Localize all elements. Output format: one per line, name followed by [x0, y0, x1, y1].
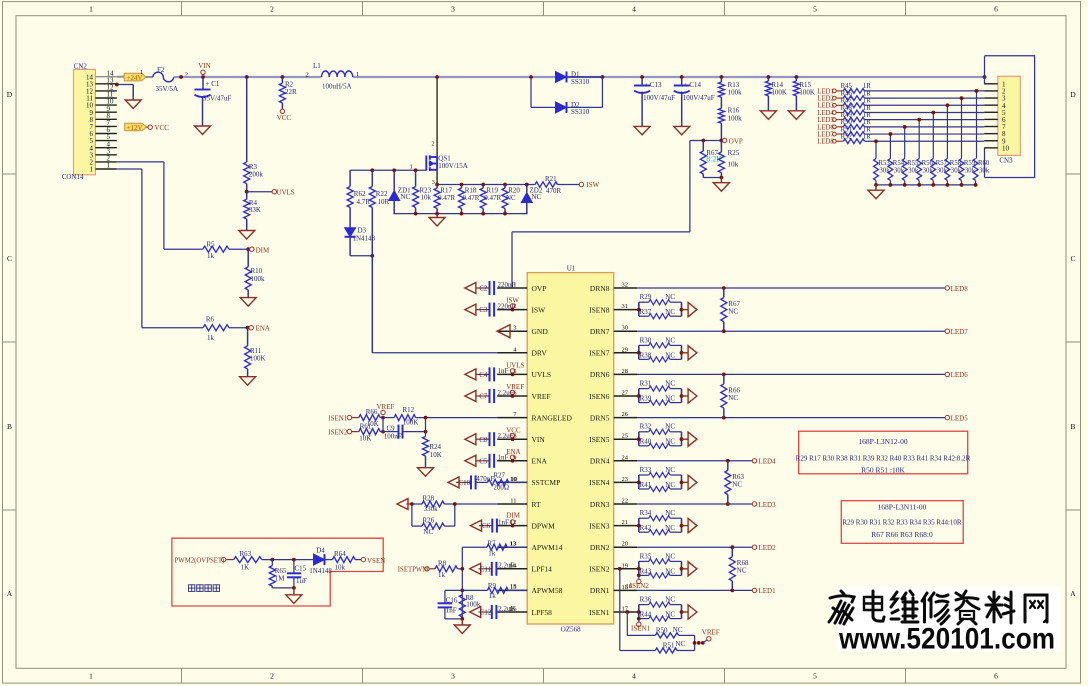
- svg-text:100k: 100k: [728, 89, 743, 97]
- ground: [286, 588, 302, 603]
- svg-text:U1: U1: [567, 265, 576, 273]
- resistor R63 (NC): [725, 459, 745, 506]
- capacitor C16: [438, 590, 463, 619]
- svg-text:35V/5A: 35V/5A: [156, 85, 179, 93]
- diode D4: [309, 547, 332, 575]
- svg-text:LED1: LED1: [759, 587, 777, 595]
- resistor R19: [480, 185, 501, 214]
- svg-text:4: 4: [632, 5, 636, 14]
- ground: [634, 126, 650, 134]
- svg-text:ISEN8: ISEN8: [589, 305, 610, 314]
- svg-text:R40: R40: [640, 438, 652, 446]
- svg-text:2: 2: [270, 5, 274, 14]
- svg-text:C12: C12: [480, 609, 492, 617]
- svg-text:30: 30: [622, 325, 629, 332]
- svg-text:+ C14: + C14: [684, 81, 702, 89]
- wire: [865, 104, 985, 106]
- svg-text:ENA: ENA: [256, 325, 270, 333]
- svg-text:100V/47uF: 100V/47uF: [683, 94, 715, 102]
- wire: [876, 184, 976, 186]
- svg-text:VCC: VCC: [506, 426, 521, 434]
- svg-text:VCC: VCC: [155, 124, 170, 132]
- svg-text:R5: R5: [207, 241, 216, 249]
- resistor R8: [435, 560, 464, 580]
- junction: [701, 139, 705, 143]
- wire: [932, 112, 934, 158]
- svg-text:168P-L3N11-00: 168P-L3N11-00: [878, 503, 927, 512]
- svg-text:OVP: OVP: [729, 138, 743, 146]
- svg-text:100V/47uF: 100V/47uF: [643, 94, 675, 102]
- svg-text:C7: C7: [479, 393, 488, 401]
- svg-text:0.47R: 0.47R: [484, 194, 501, 202]
- svg-text:DRN3: DRN3: [590, 500, 610, 509]
- resistor pair R33/R41: [637, 466, 688, 492]
- svg-text:ISETPWM: ISETPWM: [398, 566, 429, 573]
- ground: [788, 111, 804, 120]
- svg-text:R26: R26: [423, 517, 435, 525]
- wire: [637, 373, 945, 375]
- svg-text:LED8: LED8: [817, 139, 834, 146]
- svg-text:VREF: VREF: [506, 383, 524, 391]
- svg-text:R41: R41: [640, 481, 652, 489]
- svg-text:LED5: LED5: [817, 117, 834, 124]
- svg-text:DRV: DRV: [532, 349, 548, 358]
- svg-text:SS310: SS310: [571, 108, 590, 116]
- wire: [904, 127, 906, 159]
- svg-text:R21: R21: [545, 175, 557, 183]
- capacitor C12: [470, 605, 516, 619]
- wire: [983, 56, 1035, 178]
- resistor R25: [718, 141, 739, 178]
- resistor R24: [423, 432, 442, 468]
- junction: [424, 416, 428, 434]
- capacitor C10: [448, 475, 494, 490]
- svg-text:100K: 100K: [799, 89, 815, 97]
- wire: [865, 126, 985, 128]
- resistor R65: [269, 560, 294, 588]
- node LED4: [817, 110, 843, 117]
- svg-text:LED6: LED6: [817, 124, 834, 131]
- svg-text:PWM2(OVPSET): PWM2(OVPSET): [175, 558, 225, 565]
- node VREF: [693, 629, 720, 645]
- svg-text:100uH/5A: 100uH/5A: [322, 83, 352, 91]
- wire: [865, 140, 985, 142]
- svg-text:27: 27: [622, 390, 629, 397]
- svg-text:R29: R29: [640, 293, 652, 301]
- resistor R23: [413, 170, 432, 213]
- svg-text:100k: 100k: [728, 115, 743, 123]
- svg-text:23: 23: [622, 476, 629, 483]
- svg-text:R14: R14: [771, 81, 783, 89]
- svg-text:ISEN1: ISEN1: [328, 414, 348, 422]
- svg-text:LED7: LED7: [817, 131, 834, 138]
- svg-text:LED8: LED8: [951, 285, 969, 293]
- resistor pair R35/R43: [637, 552, 688, 578]
- svg-text:R29 R17 R30 R38 R31 R39 R32 R: R29 R17 R30 R38 R31 R39 R32 R40 R33 R41 …: [796, 455, 971, 463]
- svg-text:R15: R15: [799, 81, 811, 89]
- svg-text:220pF: 220pF: [498, 281, 516, 289]
- svg-text:NC: NC: [665, 395, 675, 403]
- svg-text:1k: 1k: [489, 592, 497, 600]
- wire: [146, 76, 153, 78]
- svg-text:NC: NC: [423, 528, 433, 536]
- svg-text:3: 3: [451, 5, 455, 14]
- ground: [239, 231, 255, 240]
- junction: [115, 83, 119, 87]
- svg-text:100K: 100K: [403, 419, 419, 427]
- svg-text:NC: NC: [665, 336, 675, 344]
- svg-text:DRN7: DRN7: [590, 327, 610, 336]
- svg-text:LED6: LED6: [951, 371, 969, 379]
- junction: [946, 103, 950, 107]
- ground: [688, 346, 697, 360]
- resistor R55: [902, 159, 919, 185]
- svg-text:1R: 1R: [863, 134, 871, 141]
- resistor pair R29/R37: [637, 293, 688, 319]
- svg-text:VREF: VREF: [377, 403, 395, 411]
- svg-text:1k: 1k: [207, 334, 215, 342]
- svg-text:R49: R49: [841, 112, 853, 119]
- ground: [125, 97, 141, 109]
- svg-text:D3: D3: [358, 227, 367, 235]
- svg-text:LED2: LED2: [817, 95, 834, 102]
- power +12V: [125, 123, 148, 132]
- node LED5: [945, 414, 968, 422]
- svg-text:NC: NC: [665, 308, 675, 316]
- svg-text:32: 32: [622, 282, 629, 289]
- svg-text:R61: R61: [360, 422, 372, 430]
- svg-text:1R: 1R: [863, 83, 871, 90]
- svg-text:29: 29: [622, 346, 629, 353]
- junction: [618, 567, 629, 614]
- svg-text:3: 3: [513, 325, 516, 332]
- svg-text:L1: L1: [313, 62, 321, 70]
- svg-text:2: 2: [432, 142, 435, 148]
- svg-text:A: A: [1070, 589, 1076, 598]
- resistor R9: [460, 582, 527, 600]
- junction: [960, 96, 964, 100]
- ground: [674, 126, 690, 134]
- svg-text:10k: 10k: [728, 161, 739, 169]
- svg-text:R25: R25: [728, 149, 740, 157]
- svg-text:SS310: SS310: [571, 78, 590, 86]
- svg-text:2: 2: [306, 71, 309, 78]
- svg-text:22: 22: [622, 498, 629, 505]
- svg-text:6: 6: [994, 5, 998, 14]
- svg-text:VREF: VREF: [702, 629, 720, 637]
- ground: [240, 298, 256, 307]
- svg-text:R35: R35: [640, 552, 652, 560]
- svg-text:33K: 33K: [249, 206, 261, 214]
- transistor QS1: [410, 142, 468, 187]
- resistor R28: [410, 495, 497, 514]
- svg-text:ISEN6: ISEN6: [589, 392, 610, 401]
- junction: [529, 75, 604, 79]
- junction: [414, 212, 507, 216]
- resistor R52: [841, 134, 872, 144]
- svg-text:ISW: ISW: [506, 297, 519, 305]
- svg-text:1k: 1k: [488, 550, 496, 558]
- svg-text:R29 R30 R31 R32 R33 R34 R35 R4: R29 R30 R31 R32 R33 R34 R35 R44:10R: [842, 519, 962, 527]
- svg-text:R50: R50: [656, 626, 668, 634]
- svg-text:R38: R38: [640, 351, 652, 359]
- op-amp U1 OZ568: [497, 265, 637, 634]
- resistor R16: [718, 97, 742, 140]
- svg-text:NC: NC: [732, 480, 742, 488]
- svg-text:R30: R30: [640, 336, 652, 344]
- svg-text:3: 3: [432, 180, 435, 186]
- svg-text:R24: R24: [429, 443, 441, 451]
- svg-text:NC: NC: [665, 567, 675, 575]
- svg-text:CON14: CON14: [62, 173, 84, 181]
- svg-text:1R: 1R: [863, 126, 871, 133]
- resistor R2: [279, 75, 297, 109]
- resistor R58: [945, 159, 962, 185]
- svg-text:168P-L3N12-00: 168P-L3N12-00: [858, 437, 907, 446]
- node VSEN: [361, 557, 385, 565]
- svg-text:R9: R9: [488, 582, 497, 590]
- svg-text:APWM14: APWM14: [532, 543, 563, 552]
- resistor R3: [244, 162, 264, 192]
- resistor R66: [359, 408, 383, 428]
- resistor R7: [462, 540, 527, 558]
- resistor R18: [459, 185, 480, 214]
- svg-text:LPF14: LPF14: [532, 565, 553, 574]
- svg-text:1k: 1k: [438, 571, 446, 579]
- ground: [688, 389, 697, 403]
- ground: [195, 126, 211, 135]
- wire: [531, 77, 602, 107]
- capacitor C8: [465, 426, 521, 446]
- resistor R64: [332, 550, 361, 571]
- svg-text:R28: R28: [423, 495, 435, 503]
- svg-text:NC: NC: [665, 423, 675, 431]
- connector CN3: [984, 76, 1020, 164]
- svg-text:R10: R10: [251, 267, 263, 275]
- svg-text:APWM58: APWM58: [532, 586, 563, 595]
- svg-text:DRN1: DRN1: [590, 586, 610, 595]
- svg-text:CN3: CN3: [999, 156, 1013, 164]
- ground: [397, 499, 412, 510]
- svg-text:3: 3: [451, 672, 455, 681]
- wire VIN rail: [174, 76, 985, 78]
- zener ZD2: [521, 185, 543, 214]
- svg-text:35V/47uF: 35V/47uF: [203, 95, 232, 103]
- svg-text:C6: C6: [482, 522, 491, 530]
- resistor R11: [245, 328, 266, 377]
- resistor R45: [841, 83, 872, 93]
- wire: [690, 140, 722, 142]
- svg-text:ISEN3: ISEN3: [589, 521, 610, 530]
- node UVLS: [245, 189, 295, 197]
- svg-text:D4: D4: [316, 547, 325, 555]
- svg-text:NC: NC: [665, 481, 675, 489]
- wire: [865, 133, 985, 135]
- resistor R62: [347, 170, 370, 228]
- svg-text:B: B: [1070, 422, 1075, 431]
- svg-text:1: 1: [410, 163, 413, 170]
- svg-text:DRN2: DRN2: [590, 543, 610, 552]
- svg-text:ISEN2: ISEN2: [328, 428, 348, 436]
- svg-text:R13: R13: [728, 81, 740, 89]
- svg-text:1R: 1R: [863, 90, 871, 97]
- node VCC: [148, 124, 169, 132]
- wire: [637, 546, 752, 548]
- svg-text:LED4: LED4: [759, 458, 777, 466]
- svg-text:1N4148: 1N4148: [309, 567, 332, 575]
- node ENA: [246, 325, 270, 333]
- svg-text:470nF: 470nF: [476, 475, 494, 483]
- svg-text:R32: R32: [640, 423, 652, 431]
- svg-text:ISEN2: ISEN2: [589, 565, 610, 574]
- svg-text:UVLS: UVLS: [506, 362, 524, 370]
- svg-text:B: B: [7, 422, 12, 431]
- node DIM: [506, 512, 520, 528]
- annotation box 168P-L3N12-00: [796, 431, 971, 474]
- junction: [889, 132, 893, 136]
- svg-text:VCC: VCC: [277, 114, 292, 122]
- node LED2: [752, 544, 776, 552]
- svg-text:100K: 100K: [250, 355, 266, 363]
- node LED7: [817, 131, 843, 138]
- ground: [454, 619, 470, 634]
- resistor R68 (NC): [729, 545, 749, 592]
- resistor R53: [874, 159, 891, 185]
- capacitor C15: [287, 560, 307, 590]
- svg-text:C5: C5: [479, 457, 488, 465]
- svg-text:C4: C4: [479, 371, 488, 379]
- svg-text:1: 1: [90, 166, 94, 174]
- resistor R10: [245, 249, 265, 297]
- junction: [931, 111, 935, 115]
- wire: [875, 141, 877, 158]
- svg-text:R33: R33: [640, 466, 652, 474]
- resistor R48: [841, 105, 872, 115]
- wire: [865, 90, 985, 92]
- resistor R63: [234, 550, 314, 571]
- label voltage-setting: [189, 585, 220, 592]
- svg-text:1R: 1R: [863, 119, 871, 126]
- svg-text:13: 13: [510, 541, 517, 548]
- junction: [917, 118, 921, 122]
- node LED3: [817, 103, 843, 110]
- svg-text:A: A: [7, 589, 13, 598]
- wire: [436, 77, 438, 157]
- svg-text:R46: R46: [841, 90, 853, 97]
- svg-text:+12V: +12V: [127, 124, 143, 132]
- svg-text:10k: 10k: [421, 194, 432, 202]
- svg-text:200Ω: 200Ω: [493, 484, 509, 492]
- ground: [429, 214, 445, 226]
- svg-text:D: D: [7, 90, 13, 99]
- svg-text:5: 5: [813, 672, 817, 681]
- svg-text:ISEN1: ISEN1: [631, 625, 651, 633]
- svg-text:26: 26: [622, 411, 629, 418]
- svg-text:1R: 1R: [863, 98, 871, 105]
- svg-text:4.7R: 4.7R: [357, 198, 371, 206]
- wire: [946, 105, 948, 158]
- node ISEN1: [631, 617, 651, 633]
- svg-text:DRN5: DRN5: [590, 413, 610, 422]
- svg-text:NC: NC: [665, 293, 675, 301]
- diode D2: [556, 101, 590, 116]
- node LED7: [945, 328, 968, 336]
- node ISEN1: [328, 414, 359, 422]
- wire: [436, 170, 438, 185]
- ground: [688, 605, 697, 619]
- capacitor C11: [470, 562, 516, 576]
- svg-text:NC: NC: [665, 466, 675, 474]
- svg-text:R8: R8: [438, 560, 447, 568]
- node VREF: [377, 403, 395, 419]
- inductor L1: [306, 62, 360, 90]
- svg-text:VIN: VIN: [532, 435, 546, 444]
- junction: [975, 89, 979, 93]
- svg-text:C16: C16: [446, 597, 458, 605]
- svg-text:R64: R64: [334, 550, 346, 558]
- resistor R15: [793, 75, 815, 111]
- svg-text:1R: 1R: [863, 105, 871, 112]
- ground: [418, 468, 434, 477]
- svg-text:ISEN5: ISEN5: [589, 435, 610, 444]
- svg-text:330k: 330k: [424, 505, 439, 513]
- node ISEN2: [328, 428, 359, 436]
- svg-text:R67 R66 R63 R68:0: R67 R66 R63 R68:0: [871, 530, 933, 539]
- wire: [918, 120, 920, 159]
- wire: [637, 287, 945, 289]
- node LED1: [752, 587, 776, 595]
- svg-text:NC: NC: [665, 351, 675, 359]
- node LED8: [945, 285, 968, 293]
- svg-text:VREF: VREF: [532, 392, 551, 401]
- svg-text:C10: C10: [459, 479, 471, 487]
- svg-text:10: 10: [1002, 144, 1010, 152]
- resistor R59: [959, 159, 976, 185]
- resistor R22: [369, 170, 389, 352]
- svg-text:14: 14: [509, 563, 516, 570]
- resistor pair R34/R42: [637, 509, 688, 535]
- svg-text:R37: R37: [640, 308, 652, 316]
- svg-text:DIM: DIM: [256, 247, 270, 255]
- junction: [381, 418, 385, 434]
- svg-text:10R: 10R: [378, 198, 390, 206]
- svg-text:R27: R27: [493, 471, 505, 479]
- svg-text:1: 1: [356, 71, 359, 78]
- svg-text:NC: NC: [665, 611, 675, 619]
- resistor R47: [841, 98, 872, 108]
- svg-text:R48: R48: [841, 105, 853, 112]
- annotation box 168P-L3N11-00: [841, 501, 963, 544]
- svg-text:R7: R7: [487, 540, 496, 548]
- node ISEN2: [626, 574, 650, 590]
- wire: [117, 76, 125, 78]
- svg-text:21: 21: [622, 519, 629, 526]
- svg-text:NC: NC: [665, 438, 675, 446]
- resistor R61: [359, 422, 383, 442]
- zener ZD1: [389, 170, 411, 213]
- resistor R60: [973, 159, 990, 185]
- ground: [868, 185, 884, 199]
- resistor R13: [718, 75, 742, 97]
- diode D1: [556, 71, 590, 86]
- svg-text:ISEN2: ISEN2: [630, 582, 650, 590]
- svg-text:R43: R43: [640, 567, 652, 575]
- svg-text:NC: NC: [737, 567, 747, 575]
- svg-text:15: 15: [510, 583, 517, 590]
- svg-text:ENA: ENA: [506, 448, 520, 456]
- svg-text:R42: R42: [640, 524, 652, 532]
- svg-text:1: 1: [140, 69, 143, 76]
